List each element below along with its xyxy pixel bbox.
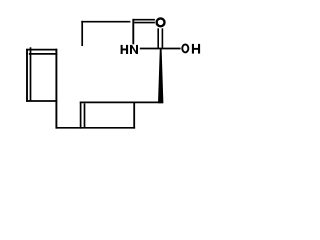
ring1 bottom edge — [26, 100, 57, 102]
ring2 bottom edge + connector from ring1 — [56, 127, 136, 129]
amide C=O upper line — [133, 19, 155, 21]
atom label OH : O oval — [182, 44, 188, 52]
ring1 left outer vertical — [26, 49, 28, 102]
acid C=O double bond left vertical — [157, 28, 159, 48]
bond CH2-ring2 + ring2 top edge — [80, 101, 163, 103]
atom label HN : N left stem — [130, 45, 132, 54]
bond C-N vertical — [132, 19, 134, 44]
wedge bond C(alpha)-CH2 — [158, 49, 163, 104]
atom label HN : H right stem — [126, 45, 128, 54]
atom label HN : N diagonal — [132, 45, 136, 54]
ring2 right vertical — [133, 102, 135, 129]
atom label HN : H left stem — [121, 45, 123, 54]
bond CH3-C carbonyl top horizontal — [81, 21, 130, 23]
ring2 left inner vertical (double bond) — [84, 103, 86, 128]
atom label OH : H right stem — [198, 44, 200, 54]
ring1 right vertical continuing down to bottom line — [55, 49, 57, 129]
atom label OH : H crossbar — [193, 48, 198, 50]
acid C=O double bond right vertical — [161, 28, 163, 48]
bond CH3 vertical — [81, 21, 83, 46]
ring2 left outer vertical — [80, 102, 82, 129]
atom label OH : H left stem — [192, 44, 194, 54]
ring1 top outer edge — [26, 49, 57, 51]
bond N-C(alpha)-OH horizontal — [140, 48, 181, 50]
atom label O (overlapping amide and acid oxygens) — [157, 18, 165, 26]
amide C=O lower line — [134, 22, 155, 24]
ring1 left inner vertical (double bond) — [30, 47, 32, 101]
ring1 top inner edge (double bond) — [29, 53, 57, 55]
atom label HN : N right stem — [136, 45, 138, 54]
atom label HN : H crossbar — [122, 49, 126, 51]
